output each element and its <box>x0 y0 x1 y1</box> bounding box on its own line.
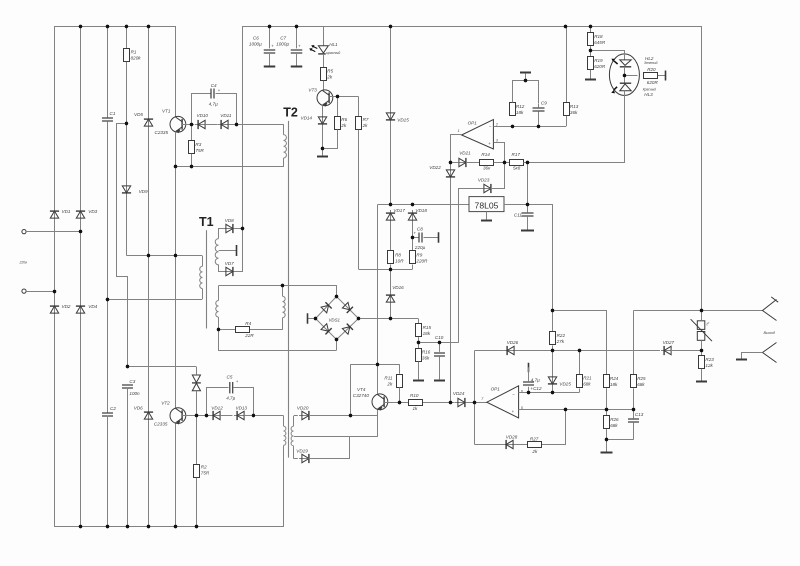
wire op2 pin5 <box>519 409 634 411</box>
svg-text:VD18: VD18 <box>415 208 427 213</box>
wire C3-DIAC row <box>127 366 196 368</box>
diode VD13 <box>234 411 247 420</box>
resistor R27 <box>528 442 542 448</box>
svg-text:36k: 36k <box>422 356 430 361</box>
input terminal 1 <box>22 230 26 234</box>
junction dots on DC rail <box>268 25 271 28</box>
diode VD3 <box>76 208 85 221</box>
resistor R24 <box>604 375 610 388</box>
diode VD1 <box>50 208 59 221</box>
wire VD27-node <box>671 350 701 352</box>
wire R24 branch <box>553 310 607 312</box>
wire VD26 row <box>475 350 504 352</box>
diode VD25 <box>548 374 557 387</box>
node C11 top <box>526 203 529 206</box>
resistor R21 <box>579 350 581 374</box>
bridge VDS1 outline <box>316 297 359 340</box>
wire VT4 collector <box>377 205 379 365</box>
svg-text:VT2: VT2 <box>161 401 170 406</box>
ground VT3 <box>322 148 324 156</box>
wire R4 row <box>219 329 236 331</box>
svg-text:C6: C6 <box>253 36 259 41</box>
svg-text:Выход: Выход <box>764 331 775 335</box>
wire R11 top <box>399 364 401 374</box>
svg-text:HL1: HL1 <box>329 42 338 47</box>
svg-text:VD14: VD14 <box>301 116 313 121</box>
diode VD15 <box>386 110 395 123</box>
wire collector-VT4 <box>377 364 379 394</box>
svg-text:3: 3 <box>496 138 498 142</box>
svg-text:OP1: OP1 <box>468 120 478 125</box>
wire VD22 down <box>450 179 452 403</box>
svg-text:C2: C2 <box>110 406 116 411</box>
wire VD15-node <box>390 121 392 204</box>
svg-text:+: + <box>488 141 491 146</box>
node R1/C1 tap <box>125 122 128 125</box>
wire op2 pin6 <box>519 392 580 394</box>
T1 secondary-2 <box>218 286 220 301</box>
svg-text:R19: R19 <box>594 58 603 63</box>
capacitor C11 <box>527 204 529 212</box>
node input2/VD1-VD2 <box>53 290 56 293</box>
svg-text:1000µ: 1000µ <box>249 41 262 46</box>
svg-text:620R: 620R <box>647 80 659 85</box>
ground C10 <box>434 380 445 382</box>
wire emitter-row2 <box>175 167 177 256</box>
diode VD20 <box>299 411 312 420</box>
svg-text:T1: T1 <box>199 215 214 229</box>
wire fork- ground <box>742 353 763 359</box>
node VD11 out <box>235 123 238 126</box>
svg-text:VD26: VD26 <box>507 340 519 345</box>
svg-text:2k: 2k <box>531 449 538 454</box>
svg-text:18k: 18k <box>423 331 431 336</box>
wire LED centre-R20 <box>625 75 638 77</box>
wire VD25 wires <box>552 350 554 376</box>
wire R24 column <box>606 310 608 312</box>
svg-text:C2335: C2335 <box>155 130 169 135</box>
wire R26 bottom <box>606 429 608 452</box>
diode VD18 <box>408 210 417 223</box>
ground R23 <box>701 369 703 381</box>
wire VT3 base <box>329 96 358 98</box>
node C8 tap <box>411 236 414 239</box>
wire W4 tap row <box>294 436 378 438</box>
node VT1 base <box>190 123 193 126</box>
resistor R15 <box>416 324 422 337</box>
capacitor C13 <box>633 410 635 419</box>
svg-text:100n: 100n <box>129 391 140 396</box>
wire VD5-VD6 <box>148 127 150 411</box>
node VD20 row <box>349 414 352 417</box>
svg-text:2k: 2k <box>362 123 369 128</box>
wire T1 primary bottom row <box>108 299 203 301</box>
resistor R10 <box>409 400 423 406</box>
node pin2/R12 <box>511 125 514 128</box>
svg-text:R10: R10 <box>410 393 419 398</box>
svg-text:−: − <box>489 124 492 129</box>
svg-text:R9: R9 <box>416 252 422 257</box>
wire T1 row top <box>127 255 202 257</box>
wire 78L05 out <box>504 204 553 206</box>
wire R20-bar <box>658 75 666 77</box>
wire C1-C2 <box>107 121 109 412</box>
transistor VT1 <box>170 116 186 132</box>
transformer T2 winding W4 <box>293 416 295 427</box>
svg-text:VDS1: VDS1 <box>329 317 341 322</box>
wire VD19 up <box>309 437 350 459</box>
svg-text:VD3: VD3 <box>88 209 97 214</box>
wire R8-node <box>390 265 392 270</box>
resistor R23 <box>699 356 705 369</box>
resistor R3 <box>189 141 195 154</box>
resistor R26 <box>606 410 608 416</box>
wire box left <box>350 364 352 416</box>
svg-text:R11: R11 <box>384 376 393 381</box>
resistor R9 <box>410 251 416 264</box>
svg-text:18k: 18k <box>516 110 524 115</box>
svg-text:VT3: VT3 <box>308 87 317 92</box>
wire base-R3 <box>191 124 193 140</box>
svg-text:t°: t° <box>707 321 710 326</box>
node pin5/feedback <box>564 408 567 411</box>
wire VD10-VD11 <box>205 124 218 126</box>
wire VD6-rail <box>148 420 150 526</box>
svg-text:C1: C1 <box>110 111 116 116</box>
resistor R5 <box>321 68 327 81</box>
wire R22-row350 <box>552 345 554 350</box>
wire input 1 <box>26 231 81 233</box>
node bridge left <box>314 317 317 320</box>
svg-text:С32740: С32740 <box>353 393 370 398</box>
ground C7 <box>291 66 303 68</box>
svg-text:R15: R15 <box>423 325 432 330</box>
wire R2-rail <box>196 478 198 526</box>
LED pair housing <box>609 54 639 96</box>
wire R2 top <box>196 416 198 465</box>
svg-text:VD4: VD4 <box>88 304 97 309</box>
T1 secondary-1 top <box>219 229 225 239</box>
wire VD9-row <box>126 194 128 255</box>
diode VD8 <box>223 224 236 233</box>
wire op1 pin2 <box>493 126 566 128</box>
diode VD19 <box>299 454 312 463</box>
svg-text:645R: 645R <box>594 40 606 45</box>
wire R11-base node <box>399 387 401 402</box>
svg-text:VD9: VD9 <box>139 189 148 194</box>
svg-text:VD7: VD7 <box>225 261 234 266</box>
wire C2-rail <box>107 416 109 526</box>
resistor R16 <box>418 343 420 348</box>
wire bridge bottom <box>336 340 338 351</box>
diode VD10 <box>195 120 208 129</box>
svg-text:1: 1 <box>458 129 460 133</box>
node C5 return <box>252 414 255 417</box>
wire W4 top row <box>294 415 298 417</box>
svg-text:C7: C7 <box>280 36 286 41</box>
wire R13 top <box>566 26 568 102</box>
svg-text:VD6: VD6 <box>134 406 143 411</box>
capacitor C7 <box>296 26 298 48</box>
diode VD4 <box>76 303 85 316</box>
wire VD16-bridge row <box>390 304 392 319</box>
capacitor C10 <box>439 343 441 352</box>
svg-text:C5: C5 <box>227 375 233 380</box>
wire rail-R18 <box>590 26 592 32</box>
node R17/C11 branch <box>526 161 529 164</box>
wire DIAC top <box>196 367 198 375</box>
svg-text:22R: 22R <box>244 333 254 338</box>
wire base-R7 <box>358 97 360 117</box>
svg-text:R7: R7 <box>363 117 369 122</box>
wire R12/C9 top loop <box>513 81 539 104</box>
bridge AC terminal bar <box>307 313 309 324</box>
wire VD3-node <box>80 219 82 231</box>
wire thermistor-node <box>701 310 703 320</box>
resistor R11 <box>397 375 403 388</box>
capacitor C5 <box>229 382 231 393</box>
wire VT2 emitter <box>175 424 177 527</box>
wire VT2 base <box>182 415 212 417</box>
wire R7 down <box>358 130 360 270</box>
node VT1 emitter row <box>174 165 177 168</box>
wire R6 <box>337 97 339 117</box>
resistor R6 <box>335 117 341 130</box>
node T1 sec2 bottom <box>217 328 220 331</box>
transistor VT4 <box>372 394 388 410</box>
wire VD3 top <box>80 27 82 211</box>
node C3 tap <box>126 365 129 368</box>
node row350/R21 <box>578 349 581 352</box>
wire R17-HL2 branch <box>523 162 625 164</box>
wire R5-VT3 <box>323 81 325 90</box>
wire rail-VD5 <box>148 27 150 118</box>
svg-text:C10: C10 <box>435 335 444 340</box>
wire VD12-VD13 <box>220 415 232 417</box>
wire VD26-VD27 <box>515 350 660 352</box>
diode VD23 <box>481 184 494 193</box>
ground R16 <box>418 362 420 380</box>
svg-text:R5: R5 <box>327 68 333 73</box>
node bridge top <box>335 295 338 298</box>
transformer T2 winding W2 <box>282 286 284 296</box>
LED HL3 <box>624 75 626 83</box>
svg-text:T2: T2 <box>283 105 298 119</box>
wire VD14-gnd node <box>322 125 324 148</box>
svg-text:1k: 1k <box>413 406 419 411</box>
svg-text:Красный: Красный <box>643 88 656 92</box>
svg-text:4,7µ: 4,7µ <box>226 395 235 400</box>
wire R16 row <box>418 342 459 344</box>
wire top-right DC rail <box>243 27 702 311</box>
svg-text:VD24: VD24 <box>453 391 465 396</box>
svg-text:2k: 2k <box>326 74 333 79</box>
output fork + <box>763 300 777 321</box>
svg-text:R27: R27 <box>530 437 539 442</box>
node pin6/C12 <box>527 391 530 394</box>
svg-text:2k: 2k <box>340 123 347 128</box>
ground C11 <box>521 230 534 232</box>
wire VD1-node <box>54 219 56 291</box>
node C10 top <box>438 341 441 344</box>
node pin5/R24 <box>605 408 608 411</box>
node VT3 emitter gnd <box>321 147 324 150</box>
node rectifier output <box>241 227 244 230</box>
node collector line T1 row <box>174 254 177 257</box>
thermistor t <box>697 321 705 330</box>
input terminal 2 <box>22 289 26 293</box>
node VT2 base/R2 <box>195 414 198 417</box>
node bridge right <box>357 317 360 320</box>
svg-text:820k: 820k <box>131 55 142 60</box>
capacitor C9 <box>538 104 540 107</box>
T1 core <box>206 230 208 328</box>
svg-text:R20: R20 <box>647 67 656 72</box>
node out/thermistor <box>700 309 703 312</box>
resistor R4 <box>236 327 250 333</box>
node VT4 base <box>398 401 401 404</box>
ground C6 <box>264 66 276 68</box>
svg-text:68k: 68k <box>610 423 618 428</box>
svg-text:VD19: VD19 <box>296 448 308 453</box>
diode VD14 <box>318 114 327 127</box>
wire VD20-VT4 <box>309 415 378 417</box>
node pin5/C13 <box>632 408 635 411</box>
wire sec2-bridge bottom <box>219 330 337 351</box>
capacitor C4 <box>210 89 212 99</box>
svg-text:R21: R21 <box>583 376 592 381</box>
transformer T2 primary <box>283 124 285 134</box>
wire R8/R9 bottom row <box>359 269 413 271</box>
resistor R8 <box>388 251 394 264</box>
svg-text:VD10: VD10 <box>197 113 209 118</box>
wire VT4 box top <box>351 364 399 366</box>
wire node-VD9 <box>126 124 128 185</box>
wire HL3-R17 row <box>624 96 626 163</box>
svg-text:−: − <box>512 392 515 397</box>
ground 78L05 <box>486 212 488 220</box>
svg-text:VD13: VD13 <box>236 405 248 410</box>
svg-text:Зеленый: Зеленый <box>644 61 658 65</box>
svg-text:VT1: VT1 <box>162 109 171 114</box>
diode VD16 <box>386 292 395 305</box>
svg-text:2: 2 <box>495 122 498 126</box>
svg-text:68k: 68k <box>583 382 591 387</box>
svg-text:4,7µ: 4,7µ <box>531 377 540 382</box>
transistor VT2 <box>170 408 186 424</box>
node R26/C13 gnd <box>605 438 608 441</box>
node VD16 row <box>389 317 392 320</box>
LED HL1 <box>318 46 328 53</box>
svg-text:620R: 620R <box>594 64 606 69</box>
resistor R7 <box>356 117 362 130</box>
transistor VT3 <box>317 90 333 106</box>
node R22 top <box>551 309 554 312</box>
wire rail-R1 <box>126 27 128 49</box>
wire rail-HL1 <box>323 26 325 46</box>
tap terminal bar <box>236 245 238 256</box>
diode VD26 <box>504 346 517 355</box>
svg-text:10R: 10R <box>395 258 404 263</box>
bridge diode top-right <box>342 302 353 313</box>
wire R3-emitter row <box>191 154 193 167</box>
diode VD24 <box>455 398 468 407</box>
wire VD23 right <box>491 163 505 189</box>
resistor R22 <box>552 310 554 331</box>
svg-text:VD12: VD12 <box>211 405 223 410</box>
wire VD21-R14 <box>466 162 480 164</box>
wire W4 bottom row <box>294 458 298 460</box>
svg-text:36к: 36к <box>483 166 491 171</box>
svg-text:VD25: VD25 <box>559 382 571 387</box>
node pin2/C9 <box>537 125 540 128</box>
wire VD18-C8 <box>412 221 414 237</box>
wire node-VD4 <box>80 232 82 305</box>
wire R9 bottom <box>412 265 414 270</box>
diode VD17 <box>386 210 395 223</box>
resistor R13 <box>564 103 570 116</box>
resistor R2 <box>194 465 200 478</box>
wire row2-VT2 <box>175 256 177 408</box>
wire bridge row-R15 <box>418 319 420 324</box>
node VT4 collector row <box>376 363 379 366</box>
node R14/R17/VD23 <box>503 161 506 164</box>
capacitor C6 <box>269 26 271 48</box>
wire +out row <box>553 310 607 312</box>
R20 terminal bar <box>665 71 667 81</box>
svg-text:4,7µ: 4,7µ <box>209 101 218 106</box>
wire VD23 left <box>459 189 484 343</box>
node R15/R16 <box>417 341 420 344</box>
wire W2 top row <box>219 285 337 287</box>
capacitor C1 <box>102 117 113 119</box>
svg-text:5к8: 5к8 <box>513 166 521 171</box>
svg-text:VD20: VD20 <box>297 406 309 411</box>
resistor R18 <box>588 33 594 46</box>
node op1 out node <box>449 161 452 164</box>
node LED centre <box>623 74 626 77</box>
wire bottom rail <box>55 219 284 527</box>
resistor R1 <box>124 49 130 62</box>
wire input 2 <box>26 291 54 293</box>
wire R15-node <box>418 337 420 343</box>
node VT2 base/C5 <box>205 414 208 417</box>
diode VD9 <box>122 183 131 196</box>
svg-text:220в: 220в <box>19 260 28 264</box>
svg-text:VD16: VD16 <box>392 285 404 290</box>
wire VT1 emitter <box>175 132 177 167</box>
op-amp OP1 bottom <box>487 386 519 418</box>
wire R17-C11 <box>527 162 529 204</box>
diode VD22 <box>446 167 455 180</box>
diode VD7 <box>223 267 236 276</box>
regulator 78L05 <box>469 197 504 212</box>
svg-text:VD8: VD8 <box>225 218 234 223</box>
svg-text:R18: R18 <box>594 34 603 39</box>
wire R13-pin2 row <box>566 116 568 126</box>
svg-text:VD17: VD17 <box>393 208 405 213</box>
wire VD13-T2low <box>244 415 284 417</box>
resistor R17 <box>510 160 524 166</box>
svg-text:+C12: +C12 <box>530 386 542 391</box>
node row350/thermistor <box>700 349 703 352</box>
svg-text:VD11: VD11 <box>220 113 232 118</box>
resistor R12 <box>510 103 516 116</box>
svg-text:R14: R14 <box>481 152 490 157</box>
transformer T2 winding W3 <box>284 426 286 445</box>
svg-text:C9: C9 <box>541 100 547 105</box>
ground R19 <box>590 70 592 79</box>
